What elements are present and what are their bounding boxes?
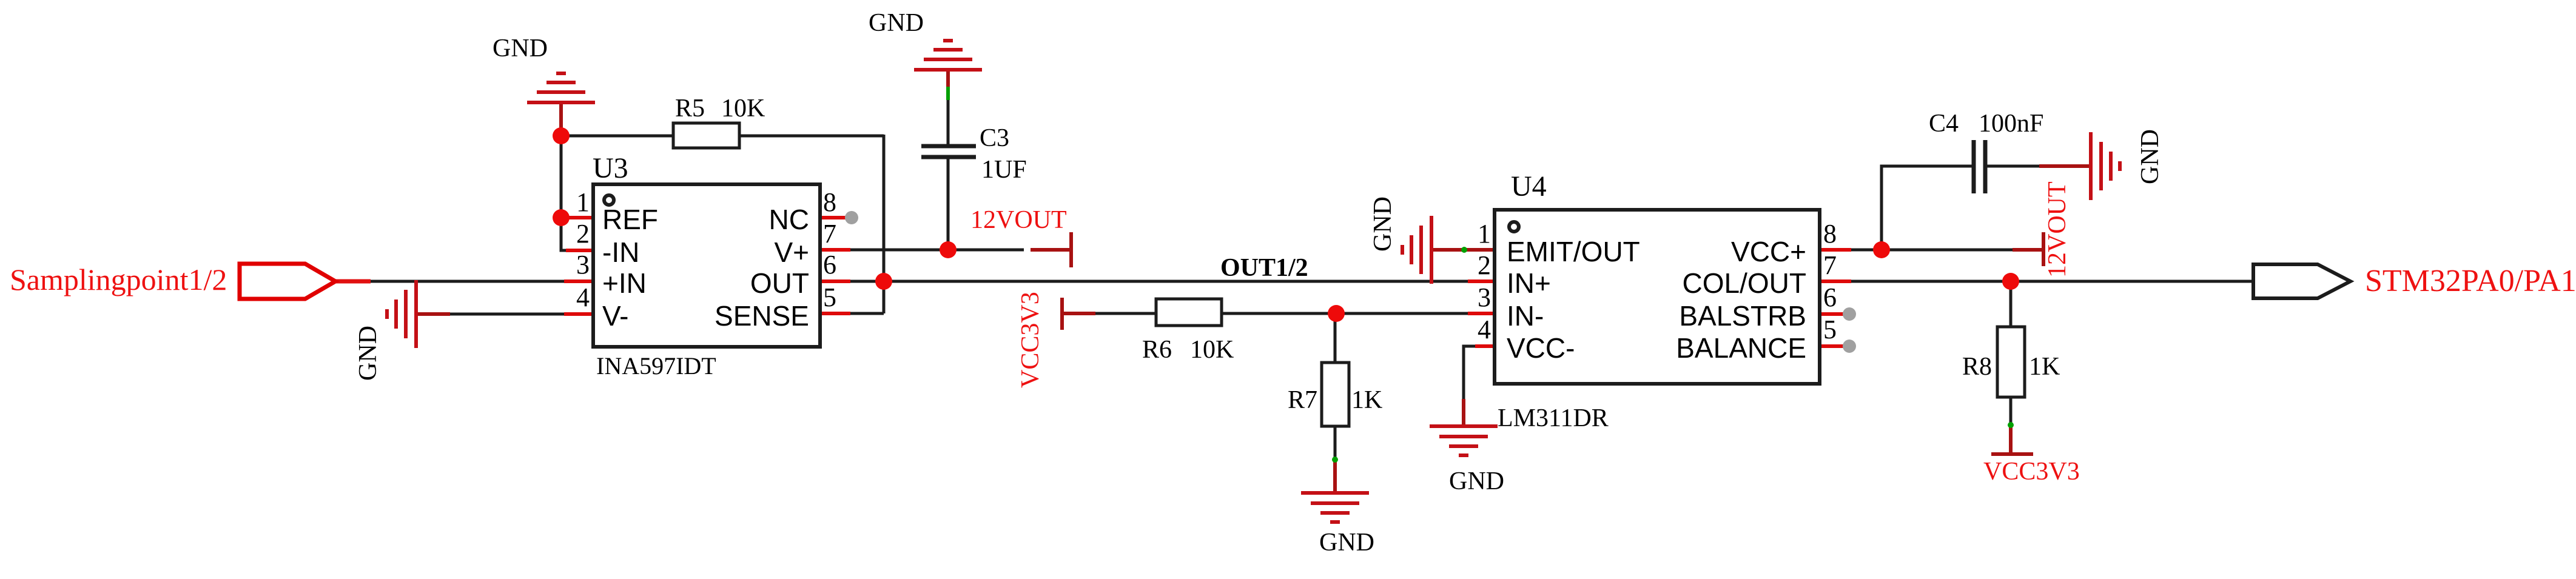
svg-text:10K: 10K xyxy=(721,95,765,122)
svg-text:Samplingpoint1/2: Samplingpoint1/2 xyxy=(10,263,227,296)
svg-text:1UF: 1UF xyxy=(981,156,1027,184)
svg-text:4: 4 xyxy=(1478,315,1491,344)
svg-text:OUT1/2: OUT1/2 xyxy=(1220,254,1308,282)
svg-text:STM32PA0/PA1: STM32PA0/PA1 xyxy=(2365,264,2576,298)
svg-text:GND: GND xyxy=(1319,529,1374,557)
svg-text:R7: R7 xyxy=(1288,386,1317,414)
svg-text:V-: V- xyxy=(602,300,628,332)
svg-text:GND: GND xyxy=(354,326,382,381)
svg-text:7: 7 xyxy=(823,219,836,249)
svg-text:1K: 1K xyxy=(1351,386,1382,414)
svg-text:8: 8 xyxy=(1823,219,1837,249)
svg-text:R8: R8 xyxy=(1962,353,1992,381)
svg-text:NC: NC xyxy=(769,204,809,235)
svg-text:INA597IDT: INA597IDT xyxy=(596,352,716,380)
svg-text:GND: GND xyxy=(1449,467,1504,495)
svg-text:OUT: OUT xyxy=(750,267,809,299)
svg-text:C4: C4 xyxy=(1929,110,1959,138)
svg-text:BALANCE: BALANCE xyxy=(1676,332,1806,364)
svg-text:GND: GND xyxy=(493,35,548,62)
svg-text:12VOUT: 12VOUT xyxy=(2043,181,2071,278)
svg-text:U4: U4 xyxy=(1511,170,1547,202)
svg-text:GND: GND xyxy=(869,9,924,37)
svg-text:8: 8 xyxy=(823,187,836,217)
svg-text:GND: GND xyxy=(2136,129,2164,184)
svg-text:U3: U3 xyxy=(593,152,628,184)
svg-text:5: 5 xyxy=(1823,315,1837,344)
svg-text:6: 6 xyxy=(1823,283,1837,312)
svg-text:1: 1 xyxy=(1478,219,1491,249)
svg-text:3: 3 xyxy=(1478,283,1491,312)
svg-text:VCC-: VCC- xyxy=(1507,332,1575,364)
svg-text:10K: 10K xyxy=(1190,336,1234,364)
svg-text:COL/OUT: COL/OUT xyxy=(1683,267,1806,299)
svg-text:IN+: IN+ xyxy=(1507,267,1551,299)
svg-text:GND: GND xyxy=(1369,196,1397,252)
svg-text:R6: R6 xyxy=(1142,336,1172,364)
svg-text:SENSE: SENSE xyxy=(715,300,809,332)
svg-text:EMIT/OUT: EMIT/OUT xyxy=(1507,236,1640,267)
svg-text:12VOUT: 12VOUT xyxy=(970,206,1067,234)
svg-text:BALSTRB: BALSTRB xyxy=(1679,300,1806,332)
svg-text:100nF: 100nF xyxy=(1979,110,2043,138)
svg-text:C3: C3 xyxy=(980,124,1009,152)
svg-text:5: 5 xyxy=(823,283,836,312)
svg-text:2: 2 xyxy=(1478,250,1491,280)
svg-text:REF: REF xyxy=(602,204,658,235)
svg-text:LM311DR: LM311DR xyxy=(1498,404,1609,432)
svg-text:7: 7 xyxy=(1823,250,1837,280)
svg-text:IN-: IN- xyxy=(1507,300,1544,332)
svg-text:VCC3V3: VCC3V3 xyxy=(1017,292,1044,388)
svg-text:4: 4 xyxy=(576,283,590,312)
svg-text:1K: 1K xyxy=(2029,353,2060,381)
svg-text:+IN: +IN xyxy=(602,267,647,299)
svg-text:VCC3V3: VCC3V3 xyxy=(1983,458,2080,486)
svg-text:3: 3 xyxy=(576,250,590,279)
svg-text:V+: V+ xyxy=(774,236,809,268)
svg-text:6: 6 xyxy=(823,250,836,279)
svg-text:1: 1 xyxy=(576,187,590,217)
svg-text:R5: R5 xyxy=(675,95,705,122)
svg-text:2: 2 xyxy=(576,219,590,249)
svg-text:-IN: -IN xyxy=(602,236,639,268)
svg-text:VCC+: VCC+ xyxy=(1731,236,1806,267)
